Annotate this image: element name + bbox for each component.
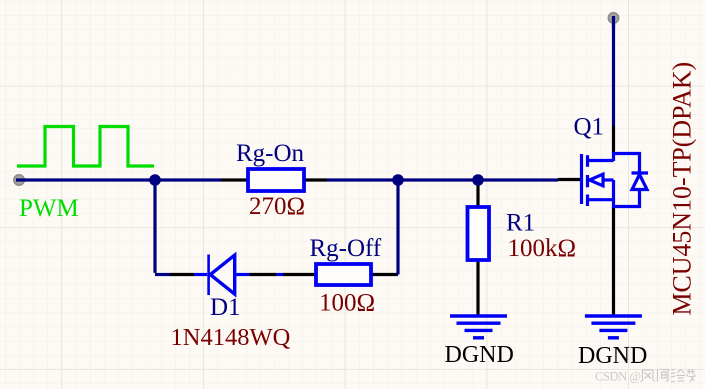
svg-text:Rg-On: Rg-On (236, 140, 305, 167)
svg-text:270Ω: 270Ω (249, 193, 305, 220)
svg-text:CSDN @: CSDN @ (595, 370, 641, 384)
svg-text:PWM: PWM (19, 195, 79, 222)
svg-text:R1: R1 (506, 210, 535, 237)
svg-text:100kΩ: 100kΩ (508, 235, 577, 262)
svg-text:D1: D1 (210, 294, 241, 321)
svg-text:DGND: DGND (445, 342, 514, 368)
svg-text:1N4148WQ: 1N4148WQ (171, 324, 291, 351)
svg-text:Rg-Off: Rg-Off (310, 235, 382, 262)
svg-text:Q1: Q1 (574, 114, 605, 141)
svg-text:DGND: DGND (578, 343, 647, 369)
svg-text:100Ω: 100Ω (319, 290, 375, 317)
svg-text:MCU45N10-TP(DPAK): MCU45N10-TP(DPAK) (668, 62, 697, 316)
